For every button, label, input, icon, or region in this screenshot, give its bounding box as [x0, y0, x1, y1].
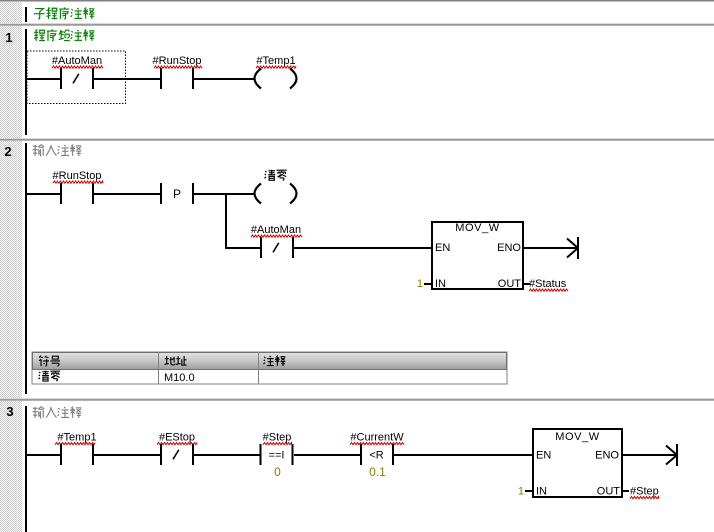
wire rail to #Temp1: [27, 454, 60, 456]
symbol table: [32, 352, 507, 384]
coil #Temp1: [255, 69, 262, 89]
table header 地址: [164, 356, 175, 365]
network 1 left power rail: [25, 29, 27, 135]
svg-text:#RunStop: #RunStop: [153, 55, 202, 67]
separator above network 3: [0, 398, 714, 399]
wire #Temp1 to #EStop: [94, 454, 160, 456]
wire #AutoMan to MOV_W EN: [294, 247, 431, 249]
separator above network 2: [0, 138, 714, 139]
svg-text:MOV_W: MOV_W: [455, 222, 500, 234]
svg-text:ENO: ENO: [595, 450, 619, 462]
svg-text:0.1: 0.1: [369, 465, 386, 479]
svg-text:3: 3: [6, 404, 13, 419]
svg-text:EN: EN: [536, 450, 551, 462]
contact #AutoMan NC net2: [260, 237, 262, 258]
wire rail to contact #AutoMan: [27, 78, 60, 80]
svg-text:#Temp1: #Temp1: [256, 55, 295, 67]
svg-text:#CurrentW: #CurrentW: [350, 432, 404, 444]
svg-text:#RunStop: #RunStop: [53, 170, 102, 182]
function block MOV_W U2: [533, 429, 622, 497]
separator above network 1: [0, 23, 714, 24]
svg-text:IN: IN: [536, 486, 547, 498]
subroutine comment text 子程序注释: [34, 9, 45, 19]
wire ENO to arrow: [623, 454, 676, 456]
wire P to coil and branch: [194, 193, 254, 195]
contact compare <R: [360, 444, 362, 465]
svg-text:P: P: [173, 187, 181, 201]
network 1 title 程序段注释: [34, 30, 45, 41]
svg-text:OUT: OUT: [498, 278, 522, 290]
svg-text:EN: EN: [435, 242, 450, 254]
wire #RunStop to coil: [194, 78, 254, 80]
table cell 清零: [38, 371, 49, 381]
svg-text:1: 1: [417, 278, 423, 290]
svg-text:#Step: #Step: [630, 486, 659, 498]
table header 符号: [39, 356, 49, 366]
selection box around contact #AutoMan: [27, 51, 126, 104]
network 2 title 输入注释: [33, 145, 45, 156]
svg-text:MOV_W: MOV_W: [555, 431, 600, 443]
contact #RunStop: [160, 68, 162, 89]
svg-text:M10.0: M10.0: [164, 372, 195, 384]
network 2 left power rail: [25, 143, 27, 394]
wire #EStop to #Step compare: [194, 454, 260, 456]
svg-text:1: 1: [518, 486, 524, 498]
contact #EStop NC: [160, 444, 162, 465]
svg-text:1: 1: [5, 30, 12, 45]
IN pin stub: [525, 490, 532, 492]
branch wire to #AutoMan: [225, 247, 260, 249]
continuation arrow net3: [676, 444, 678, 466]
wire #CurrentW to MOV_W: [394, 454, 532, 456]
svg-text:2: 2: [4, 144, 11, 159]
wire #RunStop to P contact: [94, 193, 160, 195]
comment marker bar: [25, 7, 27, 22]
contact #Temp1 net3: [60, 444, 62, 465]
top window edge: [0, 0, 714, 1]
svg-text:<R: <R: [369, 450, 383, 462]
coil label 清零: [264, 170, 275, 181]
contact #RunStop net2: [60, 183, 62, 204]
table header 注释: [263, 356, 274, 366]
coil 清零: [255, 184, 262, 204]
wire rail to contact #RunStop: [27, 193, 60, 195]
svg-text:#EStop: #EStop: [159, 432, 195, 444]
continuation arrow net2: [577, 237, 579, 259]
OUT pin stub: [524, 283, 530, 285]
svg-text:0: 0: [274, 465, 281, 479]
network 3 title 输入注释: [33, 407, 45, 418]
svg-text:#Step: #Step: [263, 432, 292, 444]
svg-text:#Status: #Status: [529, 278, 567, 290]
wire ENO to arrow: [524, 247, 577, 249]
svg-text:#Temp1: #Temp1: [57, 432, 96, 444]
branch drop wire: [225, 193, 227, 249]
function block MOV_W U1: [432, 222, 523, 289]
left gutter dithered margin: [0, 2, 22, 532]
wire #AutoMan to #RunStop: [94, 78, 160, 80]
svg-text:OUT: OUT: [597, 486, 621, 498]
IN pin stub: [424, 283, 431, 285]
NC slash: [73, 74, 79, 84]
contact #AutoMan (NC): [60, 68, 62, 89]
svg-text:==I: ==I: [269, 450, 285, 462]
svg-text:IN: IN: [435, 278, 446, 290]
contact compare ==I: [260, 444, 262, 465]
svg-text:ENO: ENO: [497, 242, 521, 254]
wire #Step to #CurrentW: [294, 454, 360, 456]
contact positive edge P: [160, 183, 162, 204]
OUT pin stub: [623, 490, 629, 492]
network 3 left power rail: [25, 406, 27, 532]
